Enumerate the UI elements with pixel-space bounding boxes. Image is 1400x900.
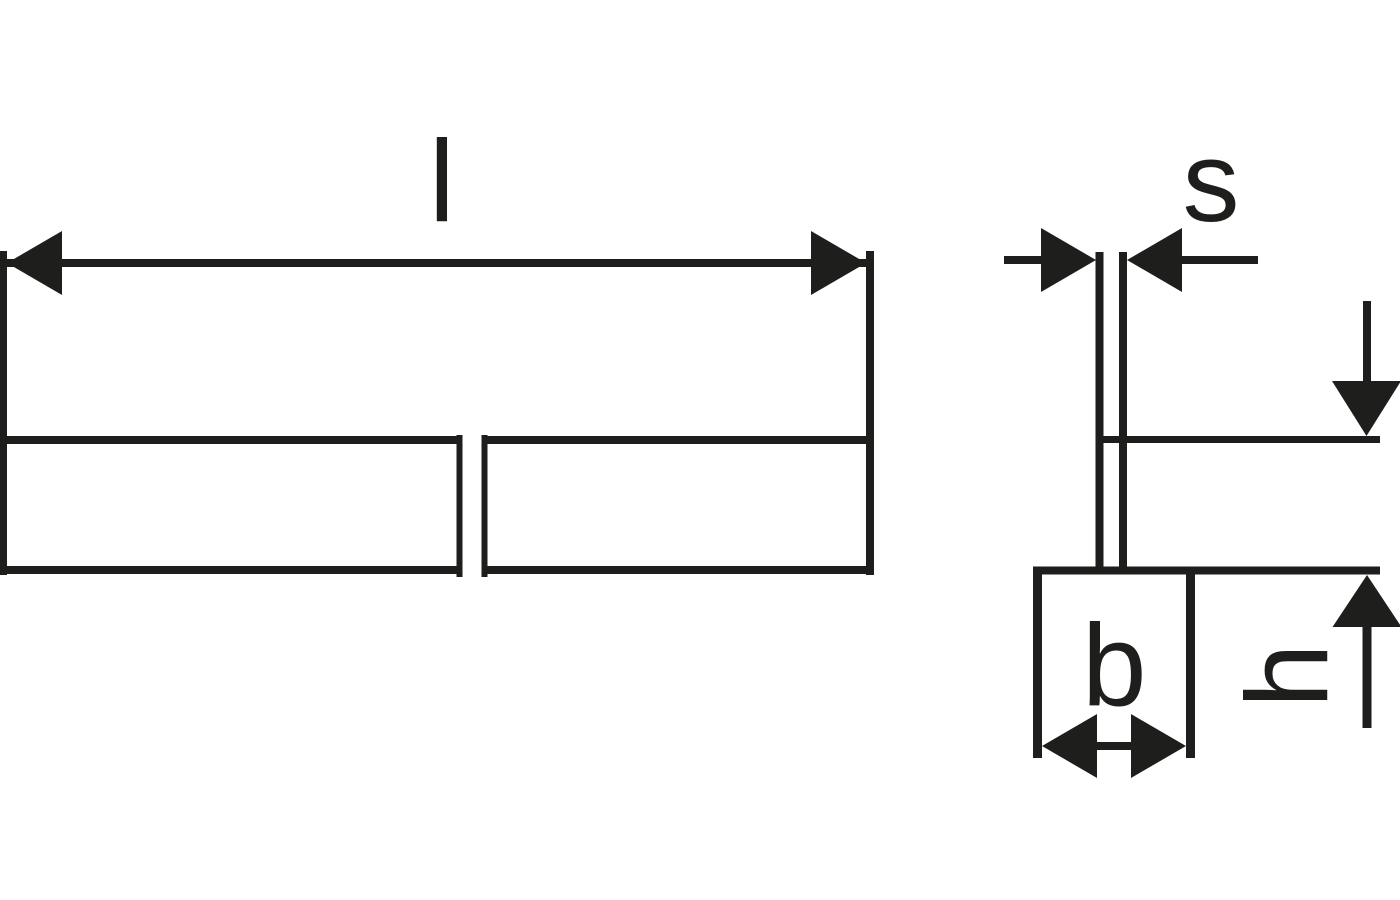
arrowhead l left: [7, 231, 62, 295]
depth arrow stem: [1363, 301, 1371, 383]
arrowhead l right: [811, 231, 866, 295]
extension line left (front view): [0, 251, 7, 575]
block top line: [1033, 567, 1380, 575]
svg-text:l: l: [429, 116, 455, 246]
arrowhead b left: [1042, 714, 1097, 778]
block right edge: [1186, 567, 1195, 759]
arrowhead s right: [1127, 228, 1182, 292]
dimension tail s left: [1004, 256, 1042, 264]
dimension tail s right: [1181, 256, 1258, 264]
depth reference line: [1096, 436, 1380, 443]
arrowhead s left: [1041, 228, 1096, 292]
break edge right bar: [482, 435, 488, 577]
height arrowhead up: [1333, 575, 1400, 627]
svg-text:b: b: [1082, 600, 1147, 730]
bar bottom edge left segment: [0, 566, 462, 574]
bar top edge left segment: [0, 436, 462, 444]
panel edge line 2 (side view): [1119, 252, 1127, 570]
svg-text:s: s: [1183, 119, 1240, 246]
break edge left bar: [457, 435, 463, 577]
depth arrowhead down: [1332, 381, 1400, 436]
block left edge: [1033, 567, 1042, 759]
dimension line b: [1094, 742, 1132, 750]
extension line right (front view): [866, 251, 874, 575]
bar top edge right segment: [482, 436, 874, 444]
dimension line l: [7, 259, 866, 267]
height arrow stem: [1363, 627, 1372, 728]
bar bottom edge right segment: [482, 566, 874, 574]
arrowhead b right: [1131, 714, 1186, 778]
panel edge line 1 (side view): [1096, 252, 1104, 570]
svg-text:h: h: [1222, 643, 1352, 708]
